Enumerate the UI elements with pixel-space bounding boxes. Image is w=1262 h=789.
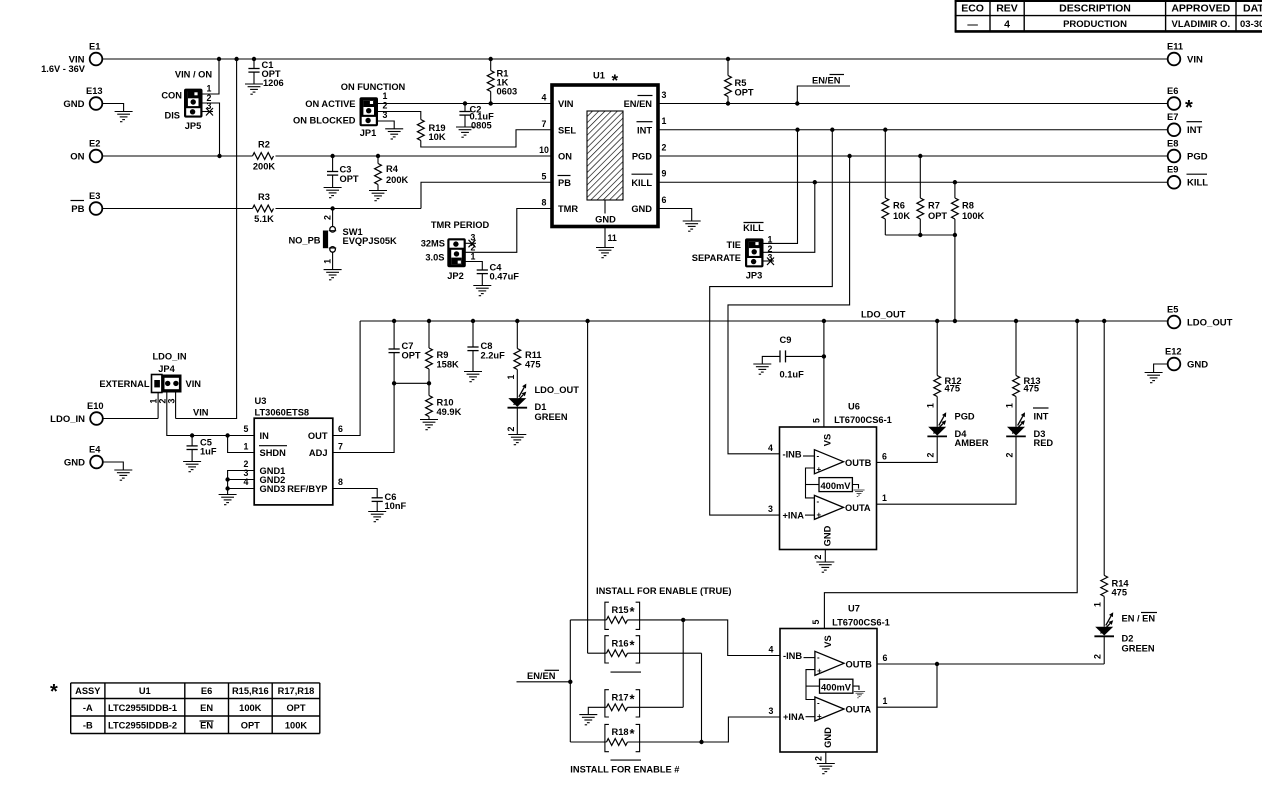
svg-text:AMBER: AMBER — [955, 438, 989, 448]
svg-text:JP4: JP4 — [158, 364, 175, 374]
svg-text:GND: GND — [63, 99, 84, 110]
svg-text:E3: E3 — [89, 191, 100, 201]
wire LDO_OUT rail to U6 VS — [823, 321, 825, 427]
resistor R18 — [570, 726, 728, 745]
wire JP1 pin1 to U1 VIN — [378, 103, 552, 105]
svg-text:R18: R18 — [612, 727, 629, 737]
svg-text:SHDN: SHDN — [260, 448, 287, 458]
ground at U1 pin11 — [596, 248, 614, 258]
bracket marks R18 — [605, 724, 640, 751]
capacitor C4 0.47uF — [477, 263, 520, 286]
svg-text:LTC2955IDDB-1: LTC2955IDDB-1 — [108, 703, 177, 713]
capacitor C6 10nF — [372, 492, 407, 512]
wire enable left rail — [569, 620, 571, 742]
group line under R15 R16 — [611, 671, 642, 673]
svg-text:VIN: VIN — [1187, 55, 1203, 66]
capacitor C8 2.2uF — [467, 321, 505, 372]
wire pullup bus R6 R7 R8 — [885, 234, 955, 236]
svg-text:PB: PB — [71, 204, 84, 215]
svg-text:+INA: +INA — [783, 712, 805, 722]
svg-text:0603: 0603 — [497, 87, 518, 97]
svg-text:R5: R5 — [735, 78, 747, 88]
wire PB net E3 to corner — [102, 208, 421, 210]
svg-text:475: 475 — [945, 384, 961, 394]
svg-text:2: 2 — [1005, 452, 1015, 457]
svg-text:6: 6 — [883, 653, 888, 663]
svg-text:-INB: -INB — [783, 651, 802, 661]
svg-text:GND: GND — [823, 525, 833, 546]
svg-text:ON: ON — [558, 152, 572, 162]
svg-text:ASSY: ASSY — [75, 686, 101, 696]
resistor R7 OPT — [917, 156, 948, 235]
svg-text:1: 1 — [506, 374, 516, 379]
resistor R9 158K — [426, 321, 459, 383]
svg-text:VS: VS — [823, 434, 833, 446]
wire U6 GND to ground — [813, 550, 825, 563]
svg-text:OPT: OPT — [402, 351, 421, 361]
svg-text:R8: R8 — [962, 201, 974, 211]
svg-text:U3: U3 — [255, 396, 267, 406]
svg-text:5: 5 — [811, 619, 821, 624]
svg-text:GREEN: GREEN — [1122, 644, 1155, 654]
svg-text:KILL: KILL — [1187, 178, 1208, 189]
svg-text:200K: 200K — [253, 162, 276, 172]
ground at C4 — [473, 286, 491, 296]
wire JP3 pin1 to INT net — [764, 130, 798, 244]
svg-text:1: 1 — [471, 252, 476, 262]
IC U3 LT3060ETS8 — [244, 396, 344, 505]
junction dot PB net at SW1 — [330, 206, 334, 210]
wire U6 OUTA to D3 — [877, 437, 1017, 505]
junction dots on U1 VIN wire — [463, 101, 493, 105]
resistor R1 1K 0603 — [487, 59, 517, 104]
resistor R6 10K — [882, 130, 910, 235]
svg-text:R2: R2 — [258, 140, 270, 150]
svg-text:JP3: JP3 — [746, 271, 763, 281]
svg-text:5: 5 — [812, 418, 822, 423]
svg-text:1: 1 — [662, 116, 667, 126]
wire LDO_OUT rail — [360, 310, 1168, 322]
svg-text:—: — — [967, 18, 978, 30]
svg-text:VS: VS — [823, 635, 833, 647]
svg-text:R17: R17 — [612, 693, 629, 703]
wire U1 pin6 GND to ground — [658, 209, 692, 222]
JP2 pin3 no-connect X — [465, 240, 476, 248]
svg-text:2: 2 — [814, 756, 824, 761]
jumper JP1 ON FUNCTION — [293, 82, 406, 138]
svg-text:475: 475 — [525, 360, 541, 370]
svg-text:1: 1 — [883, 696, 888, 706]
svg-text:INT: INT — [1187, 125, 1203, 136]
svg-text:10K: 10K — [893, 211, 910, 221]
svg-text:7: 7 — [338, 442, 343, 452]
terminal E5 LDO_OUT — [1167, 305, 1233, 329]
ground at C1 — [245, 84, 263, 94]
svg-text:-: - — [817, 699, 820, 708]
svg-text:R11: R11 — [525, 350, 542, 360]
svg-text:2: 2 — [1093, 654, 1103, 659]
svg-text:INT: INT — [1034, 411, 1049, 421]
resistor R4 200K — [375, 156, 409, 191]
svg-text:1: 1 — [322, 259, 332, 264]
svg-text:475: 475 — [1112, 588, 1128, 598]
svg-text:4: 4 — [542, 93, 547, 103]
svg-text:0.47uF: 0.47uF — [490, 272, 520, 282]
svg-text:10: 10 — [539, 145, 549, 155]
terminal E12 GND — [1165, 347, 1208, 371]
wire VIN drop to LDO jumper — [176, 59, 237, 419]
svg-text:JP2: JP2 — [447, 271, 464, 281]
svg-text:2: 2 — [662, 142, 667, 152]
wire JP2 pin1 to C4 — [465, 262, 482, 271]
svg-text:APPROVED: APPROVED — [1171, 3, 1230, 15]
svg-text:C8: C8 — [481, 341, 493, 351]
svg-text:*: * — [1185, 97, 1193, 119]
svg-text:+INA: +INA — [783, 511, 805, 521]
svg-text:R17,R18: R17,R18 — [278, 686, 315, 696]
svg-text:6: 6 — [338, 424, 343, 434]
svg-text:OPT: OPT — [241, 721, 260, 731]
svg-text:GND: GND — [631, 204, 652, 214]
svg-text:U6: U6 — [848, 402, 860, 412]
svg-text:3: 3 — [768, 504, 773, 514]
capacitor C9 0.1uF — [762, 335, 824, 380]
ground at E12 — [1145, 373, 1163, 383]
svg-text:2: 2 — [506, 426, 516, 431]
junction dot enable rail — [568, 680, 572, 684]
svg-text:OPT: OPT — [928, 211, 947, 221]
ground at SW1 — [324, 270, 342, 280]
svg-text:R10: R10 — [437, 398, 454, 408]
svg-text:10K: 10K — [429, 132, 446, 142]
svg-text:1: 1 — [244, 442, 249, 452]
svg-text:1: 1 — [383, 91, 388, 101]
terminal E9 KILL — [1167, 165, 1208, 189]
jumper JP5 VIN/ON — [161, 70, 212, 132]
ground at D1 — [508, 435, 526, 445]
svg-text:INSTALL FOR ENABLE #: INSTALL FOR ENABLE # — [570, 765, 680, 775]
svg-text:E13: E13 — [86, 86, 103, 96]
svg-text:4: 4 — [769, 645, 774, 655]
svg-text:EN / EN: EN / EN — [1122, 614, 1156, 624]
svg-text:E12: E12 — [1165, 347, 1182, 357]
junction dots on KILL net — [813, 180, 958, 184]
svg-text:3: 3 — [769, 706, 774, 716]
svg-text:DIS: DIS — [165, 111, 181, 121]
svg-text:RED: RED — [1034, 438, 1054, 448]
svg-text:-B: -B — [83, 721, 93, 731]
svg-text:E7: E7 — [1167, 112, 1178, 122]
junction dot R18 node — [699, 740, 703, 744]
resistor R17 — [588, 692, 683, 715]
junction dot C9 tap — [822, 354, 826, 358]
svg-text:100K: 100K — [962, 211, 985, 221]
LED D3 RED INT — [1005, 408, 1054, 457]
svg-text:ON ACTIVE: ON ACTIVE — [305, 99, 355, 109]
junction dots U3 ground bus — [225, 477, 229, 490]
svg-text:VIN: VIN — [193, 408, 209, 418]
ground at U3 — [219, 495, 237, 505]
capacitor C7 OPT — [389, 321, 421, 383]
svg-text:GND: GND — [823, 727, 833, 748]
svg-text:-INB: -INB — [783, 449, 802, 459]
svg-text:U7: U7 — [848, 604, 860, 614]
resistor R19 10K — [417, 120, 445, 143]
svg-text:JP1: JP1 — [360, 128, 377, 138]
wire R16 R18 node to U7 +INA — [702, 653, 781, 742]
svg-text:32MS: 32MS — [421, 239, 445, 249]
wire U3 GND pins to ground — [228, 471, 255, 495]
svg-text:OPT: OPT — [340, 174, 359, 184]
wire JP5 pin1 to VIN — [203, 59, 220, 94]
wire PGD net to U6 -INB — [728, 156, 850, 454]
svg-text:LT6700CS6-1: LT6700CS6-1 — [834, 415, 892, 425]
svg-text:NO_PB: NO_PB — [288, 235, 320, 245]
jumper JP4 LDO_IN select — [99, 352, 201, 404]
wire U3 OUT to LDO_OUT rail — [333, 321, 360, 436]
svg-text:E1: E1 — [89, 42, 100, 52]
resistor R2 200K — [253, 140, 276, 172]
svg-text:VLADIMIR O.: VLADIMIR O. — [1172, 19, 1231, 30]
svg-text:ON: ON — [70, 152, 84, 163]
resistor R15 — [570, 604, 683, 623]
jumper JP2 TMR PERIOD — [421, 220, 490, 281]
LED D4 AMBER PGD — [926, 411, 989, 457]
svg-text:LT3060ETS8: LT3060ETS8 — [255, 408, 310, 418]
junction dots on PGD net — [847, 154, 922, 158]
capacitor C2 0.1uF 0805 — [459, 104, 494, 131]
svg-text:1: 1 — [926, 403, 936, 408]
ground at C9 — [753, 364, 771, 374]
ground at C5 — [183, 462, 201, 472]
wire JP4 pin2 to U3 IN — [167, 393, 254, 436]
svg-text:R15: R15 — [612, 605, 629, 615]
svg-text:2: 2 — [813, 554, 823, 559]
terminal E3 PB — [71, 191, 103, 215]
terminal E13 GND — [63, 86, 102, 110]
svg-text:OUTB: OUTB — [845, 458, 872, 468]
wire PGD net U1 pin2 to E8 — [658, 155, 1168, 157]
wire U6 OUTB to D4 — [877, 437, 938, 463]
svg-text:-A: -A — [83, 703, 93, 713]
svg-text:R4: R4 — [386, 164, 399, 174]
junction dots on LDO_OUT rail — [392, 319, 1107, 323]
LED D2 GREEN EN/EN — [1093, 612, 1158, 664]
svg-text:DATE: DATE — [1243, 3, 1262, 15]
resistor R12 475 — [926, 321, 962, 427]
svg-text:+: + — [817, 511, 822, 520]
svg-text:4: 4 — [768, 443, 773, 453]
svg-text:ADJ: ADJ — [309, 448, 328, 458]
svg-text:1206: 1206 — [263, 78, 284, 88]
comparator U6 LT6700CS6-1 — [780, 402, 892, 550]
JP3 pin3 no-connect X — [764, 258, 775, 266]
svg-text:10nF: 10nF — [385, 501, 407, 511]
ground at C2 — [456, 127, 474, 137]
svg-text:ON BLOCKED: ON BLOCKED — [293, 116, 356, 126]
svg-text:OUTB: OUTB — [846, 659, 873, 669]
terminal E11 VIN — [1167, 42, 1203, 66]
svg-text:KILL: KILL — [743, 223, 764, 233]
svg-text:E10: E10 — [87, 401, 104, 411]
svg-text:OUT: OUT — [308, 431, 328, 441]
svg-text:R16: R16 — [612, 639, 629, 649]
resistor R14 475 — [1093, 321, 1130, 627]
resistor R16 — [588, 638, 702, 657]
svg-text:*: * — [612, 71, 619, 90]
junction dot U7 outputs — [935, 662, 939, 666]
wire U3 SHDN to IN — [228, 436, 255, 453]
svg-text:EN/EN: EN/EN — [527, 671, 556, 681]
wire pullup bus to LDO_OUT rail — [954, 235, 956, 321]
svg-text:DESCRIPTION: DESCRIPTION — [1059, 3, 1131, 15]
terminal E7 INT — [1167, 112, 1203, 136]
wire E10 to JP4 pin1 — [103, 393, 158, 419]
svg-text:E6: E6 — [1167, 86, 1178, 96]
svg-text:TMR PERIOD: TMR PERIOD — [431, 220, 490, 230]
svg-text:U1: U1 — [593, 71, 605, 81]
svg-text:9: 9 — [662, 169, 667, 179]
svg-text:4: 4 — [1004, 18, 1010, 30]
wire INT net to U6 +INA — [710, 130, 833, 515]
junction dots on INT net — [795, 128, 887, 132]
capacitor C3 OPT — [327, 156, 359, 188]
svg-text:6: 6 — [662, 195, 667, 205]
svg-text:+: + — [817, 465, 822, 474]
group line under R17 R18 — [611, 759, 642, 761]
svg-text:GREEN: GREEN — [535, 412, 568, 422]
wire JP1 pin2 to R19 — [378, 112, 421, 120]
svg-text:2: 2 — [383, 101, 388, 111]
svg-text:2: 2 — [926, 452, 936, 457]
svg-text:EN/EN: EN/EN — [624, 99, 653, 109]
svg-text:E4: E4 — [89, 445, 101, 455]
svg-text:VIN: VIN — [558, 99, 574, 109]
ground at C3 — [324, 188, 342, 198]
svg-text:5.1K: 5.1K — [254, 214, 274, 224]
wire JP2 pin2 to U1 TMR — [465, 209, 552, 253]
wire divider node — [394, 382, 429, 384]
svg-text:5: 5 — [244, 424, 249, 434]
svg-text:-: - — [817, 497, 820, 506]
svg-text:JP5: JP5 — [185, 121, 202, 131]
resistor R10 49.9K — [426, 383, 462, 419]
ground at R17 — [579, 715, 597, 725]
svg-text:3.0S: 3.0S — [425, 253, 444, 263]
wire LDO_OUT rail to U7 VS — [824, 321, 1077, 629]
resistor R11 475 — [506, 321, 542, 398]
wire JP4 pin3 riser — [176, 393, 209, 419]
IC U1 LTC2955 — [539, 71, 666, 227]
ground at U1 pin6 — [683, 221, 701, 231]
svg-text:8: 8 — [338, 477, 343, 487]
svg-text:OUTA: OUTA — [845, 503, 871, 513]
terminal E1 VIN — [41, 42, 102, 75]
svg-text:R6: R6 — [893, 201, 905, 211]
title block revision table — [955, 0, 1262, 33]
svg-text:PRODUCTION: PRODUCTION — [1063, 19, 1127, 30]
wire VIN rail — [102, 58, 1167, 60]
svg-text:INT: INT — [637, 125, 652, 135]
net label EN/EN flag — [797, 75, 850, 104]
svg-text:REF/BYP: REF/BYP — [287, 484, 327, 494]
svg-text:TIE: TIE — [727, 240, 741, 250]
svg-text:11: 11 — [608, 233, 617, 243]
svg-text:E9: E9 — [1167, 165, 1178, 175]
svg-text:SEPARATE: SEPARATE — [692, 253, 741, 263]
comparator U7 LT6700CS6-1 — [780, 604, 890, 753]
svg-text:GND: GND — [1187, 360, 1208, 371]
svg-text:2.2uF: 2.2uF — [481, 351, 506, 361]
terminal E10 LDO_IN — [50, 401, 103, 425]
bracket marks R17 — [605, 690, 640, 717]
wire KILL net U1 pin9 to E9 — [658, 181, 1168, 183]
svg-text:R15,R16: R15,R16 — [232, 686, 269, 696]
ground at E4 — [114, 470, 132, 480]
svg-text:R3: R3 — [258, 192, 270, 202]
svg-text:PGD: PGD — [1187, 152, 1208, 163]
ground at U7 — [817, 764, 835, 774]
wire JP1 pin3 to ground — [378, 121, 394, 129]
svg-text:LDO_IN: LDO_IN — [152, 352, 186, 362]
capacitor C5 1uF — [187, 436, 217, 462]
junction dots on VIN rail — [217, 57, 730, 61]
ground at JP1 — [385, 129, 403, 139]
junction dots on EN/EN net — [726, 101, 800, 105]
ground at E13 — [115, 112, 133, 122]
wire INT net U1 pin1 to E7 — [658, 129, 1168, 131]
svg-text:EN: EN — [200, 703, 213, 713]
svg-text:PGD: PGD — [632, 152, 652, 162]
svg-text:EN/EN: EN/EN — [812, 76, 841, 86]
svg-text:D1: D1 — [535, 402, 547, 412]
junction dot R15 node — [681, 618, 685, 622]
svg-text:LT6700CS6-1: LT6700CS6-1 — [832, 618, 890, 628]
svg-text:8: 8 — [542, 198, 547, 208]
svg-text:E5: E5 — [1167, 305, 1178, 315]
net label EN/EN stub — [517, 670, 571, 682]
svg-text:PB: PB — [558, 178, 571, 188]
svg-text:0805: 0805 — [471, 121, 492, 131]
bracket marks R16 — [605, 636, 640, 663]
svg-text:200K: 200K — [386, 175, 409, 185]
svg-text:1: 1 — [1005, 403, 1015, 408]
ground at R4 — [369, 191, 387, 201]
svg-text:LTC2955IDDB-2: LTC2955IDDB-2 — [108, 721, 177, 731]
svg-text:3: 3 — [662, 90, 667, 100]
junction dots divider node — [392, 381, 431, 385]
svg-text:C7: C7 — [402, 341, 414, 351]
svg-text:0.1uF: 0.1uF — [780, 370, 805, 380]
svg-text:-: - — [817, 653, 820, 662]
svg-text:1: 1 — [1093, 602, 1103, 607]
svg-text:E6: E6 — [201, 686, 212, 696]
svg-text:EVQPJS05K: EVQPJS05K — [343, 236, 398, 246]
wire E12 to ground — [1154, 364, 1168, 373]
capacitor C1 OPT 1206 — [248, 59, 283, 88]
svg-text:+: + — [817, 667, 822, 676]
junction dots on U3 IN wire — [190, 433, 230, 437]
svg-text:03-30: 03-30 — [1240, 19, 1262, 30]
svg-text:1uF: 1uF — [200, 447, 217, 457]
svg-text:INSTALL FOR ENABLE (TRUE): INSTALL FOR ENABLE (TRUE) — [596, 586, 732, 596]
svg-text:100K: 100K — [285, 721, 308, 731]
svg-text:LDO_OUT: LDO_OUT — [1187, 318, 1233, 329]
svg-text:1.6V - 36V: 1.6V - 36V — [41, 64, 86, 74]
svg-text:158K: 158K — [437, 360, 460, 370]
svg-text:2: 2 — [322, 215, 332, 220]
svg-text:6: 6 — [882, 451, 887, 461]
